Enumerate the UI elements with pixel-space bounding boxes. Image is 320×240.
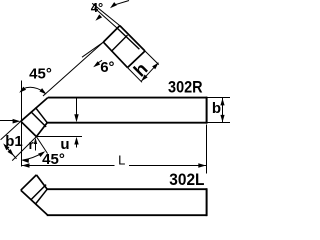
6-deg second wedge line bbox=[82, 42, 103, 57]
head corner extension to south-east bbox=[36, 137, 47, 154]
svg-text:b1: b1 bbox=[5, 133, 23, 150]
right end extension line down bbox=[206, 125, 208, 174]
svg-text:6°: 6° bbox=[100, 59, 114, 76]
auxiliary head view top-left edge TA bbox=[103, 26, 120, 42]
L dimension line right part bbox=[129, 165, 206, 167]
h extension line from B bbox=[128, 68, 143, 83]
svg-text:302R: 302R bbox=[168, 77, 203, 96]
4-deg wedge line lower bbox=[94, 8, 117, 29]
u dimension shaft lower bbox=[76, 144, 78, 148]
h dimension line bbox=[141, 63, 158, 82]
shank 302L bottom edge bbox=[47, 214, 207, 216]
6-deg arrow tail bbox=[98, 60, 102, 63]
302L braze line 2 bbox=[35, 189, 47, 204]
L dimension line left part bbox=[22, 165, 115, 167]
auxiliary view plate underside line bbox=[117, 28, 139, 49]
b bottom extension line bbox=[208, 122, 231, 124]
head corner extension to south-west bbox=[12, 137, 36, 161]
h lower arrowhead bbox=[140, 75, 148, 83]
svg-text:u: u bbox=[60, 136, 69, 153]
h extension line from R bbox=[145, 51, 159, 65]
svg-text:4°: 4° bbox=[91, 0, 103, 15]
shank 302R bottom edge bbox=[47, 122, 207, 124]
u dimension shaft upper bbox=[76, 99, 78, 115]
vertical extension line through tip bbox=[21, 81, 23, 167]
302L head upper tip edge bbox=[21, 175, 37, 190]
connector / 6-deg reference line bbox=[43, 42, 103, 96]
auxiliary head view bottom-right edge BR bbox=[128, 51, 146, 68]
svg-text:45°: 45° bbox=[42, 151, 65, 168]
braze line 2 of head bbox=[35, 107, 47, 122]
4-deg wedge line upper bbox=[92, 3, 120, 25]
auxiliary head view top-right edge TR bbox=[120, 26, 145, 51]
h upper arrowhead bbox=[152, 61, 160, 69]
svg-text:45°: 45° bbox=[29, 65, 52, 82]
shank 302R top edge bbox=[48, 97, 207, 99]
302L head lower 45-deg edge bbox=[21, 190, 48, 215]
b1 tail line bbox=[13, 155, 16, 159]
r arrowhead bbox=[34, 138, 37, 144]
lower 45-deg dimension arc bbox=[22, 152, 43, 160]
cutting head lower tip edge bbox=[21, 121, 37, 136]
b1 lower arrowhead bbox=[7, 149, 15, 157]
4-deg lower arrowhead bbox=[94, 14, 102, 22]
upper 45-deg dimension arc bbox=[23, 87, 45, 92]
b lower arrowhead bbox=[220, 115, 224, 122]
b top extension line bbox=[208, 97, 231, 99]
4-deg arrow tail bbox=[115, 1, 129, 5]
u extension line horizontal bbox=[37, 136, 83, 138]
upper 45 arc right arrowhead bbox=[39, 88, 47, 96]
b upper arrowhead bbox=[220, 98, 224, 105]
shank 302L right end bbox=[206, 188, 208, 216]
tip edge extension to lower-left bbox=[1, 121, 21, 140]
u down arrowhead bbox=[74, 114, 78, 122]
svg-text:r: r bbox=[29, 137, 34, 152]
tip leader line bbox=[0, 120, 14, 122]
upper 45 arc left arrowhead bbox=[18, 87, 26, 95]
shank 302R right end bbox=[206, 97, 208, 124]
lower 45 arc left arrowhead bbox=[21, 158, 28, 163]
r leader shaft bbox=[35, 140, 37, 151]
tip leader arrowhead bbox=[13, 119, 21, 124]
auxiliary head view left edge AB bbox=[103, 42, 127, 68]
svg-text:L: L bbox=[118, 152, 125, 167]
auxiliary view braze line bbox=[111, 35, 127, 51]
shank 302L top edge bbox=[47, 188, 207, 190]
b1 upper arrowhead bbox=[2, 142, 10, 150]
b dimension line bbox=[222, 98, 224, 122]
4-deg upper arrowhead bbox=[109, 2, 117, 10]
b1 dimension line bbox=[5, 145, 14, 155]
L right arrowhead bbox=[198, 163, 206, 167]
cutting head upper 45-deg edge bbox=[21, 98, 48, 122]
302L head upper-right edge bbox=[36, 175, 47, 189]
svg-text:302L: 302L bbox=[169, 170, 204, 189]
L left arrowhead bbox=[22, 163, 30, 167]
braze line 1 of head bbox=[31, 112, 46, 127]
svg-text:b: b bbox=[212, 100, 221, 117]
lower 45 arc right arrowhead bbox=[38, 149, 46, 157]
cutting head lower-right edge bbox=[36, 123, 47, 137]
u up arrowhead bbox=[74, 137, 78, 145]
302L braze line 1 bbox=[31, 185, 46, 200]
6-deg arrowhead bbox=[92, 61, 100, 69]
